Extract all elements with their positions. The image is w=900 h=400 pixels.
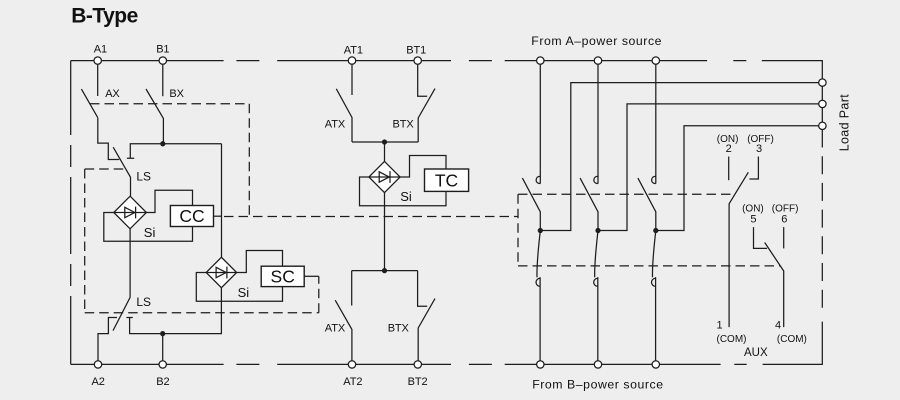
svg-text:BT1: BT1 xyxy=(406,45,426,57)
junction node pole1 xyxy=(538,228,543,233)
dashed pole interlock box top edge xyxy=(518,193,735,195)
switch ATX upper blade xyxy=(336,89,352,142)
terminal B-source pole3 xyxy=(652,361,659,368)
terminal AT2 xyxy=(348,361,355,368)
svg-text:Si: Si xyxy=(238,285,250,300)
switch pole2 upper blade xyxy=(580,178,598,230)
wire SC right stub xyxy=(304,275,319,277)
coil box SC xyxy=(261,266,304,286)
svg-text:CC: CC xyxy=(179,206,204,226)
terminal load 3 xyxy=(819,122,826,129)
terminal load 2 xyxy=(819,100,826,107)
dashed interlock box AX-BX right edge xyxy=(248,104,250,217)
terminal B2 xyxy=(159,361,166,368)
wire pole2 cross to load circle 2 xyxy=(598,104,819,231)
wire B-bus horizontal with LS B-contact tick xyxy=(127,144,222,158)
wire bridge1 bottom stem xyxy=(129,229,131,297)
junction node B-bus lower xyxy=(160,331,165,336)
wire pole1 bottom stem xyxy=(539,287,541,361)
switch LS upper blade xyxy=(113,147,130,196)
svg-text:AX: AX xyxy=(105,88,120,100)
pole1 top contact hook xyxy=(536,176,540,183)
wire lower B-bus horizontal with tick xyxy=(126,288,221,334)
wire A1 stem xyxy=(97,64,99,96)
wire CC right to B-bus xyxy=(214,215,222,217)
wire load-part right column dashes down to bottom rail xyxy=(821,130,823,311)
junction node pole3 xyxy=(653,228,658,233)
junction node TC funnel top xyxy=(382,139,387,144)
switch aux blade 5-6 and wire to terminal 4 xyxy=(765,243,784,328)
svg-text:Load Part: Load Part xyxy=(837,94,851,152)
pole2 top contact hook xyxy=(594,176,598,183)
junction node B-bus upper xyxy=(160,141,165,146)
wire A2 step to lower LS A-contact with tick xyxy=(98,318,117,361)
terminal AT1 xyxy=(348,57,355,64)
dashed LS interlock box right edge to SC xyxy=(318,276,320,312)
wire pole1 cross to load circle 1 xyxy=(540,83,818,231)
svg-text:SC: SC xyxy=(271,267,295,287)
wire aux contact 5 with tick xyxy=(754,227,768,248)
wire funnel bottom bar xyxy=(352,270,418,272)
wire bridge2 left loop to SC bottom xyxy=(196,273,282,302)
terminal A1 xyxy=(94,57,101,64)
wire lower BTX contact stem with tick xyxy=(418,271,428,307)
svg-text:(COM): (COM) xyxy=(717,334,747,345)
svg-text:Si: Si xyxy=(400,189,412,204)
svg-text:A2: A2 xyxy=(92,376,105,388)
wire bottom rail B-power (segmented) xyxy=(71,322,823,365)
terminal A2 xyxy=(94,361,101,368)
pole3 bottom contact hook xyxy=(651,277,655,287)
wire pole3 cross to load circle 3 xyxy=(656,126,819,231)
junction node TC funnel bottom xyxy=(382,268,387,273)
switch pole1 lower blade xyxy=(537,231,540,278)
wire B2 stem xyxy=(162,334,164,361)
switch pole3 lower blade xyxy=(652,231,655,278)
svg-text:BTX: BTX xyxy=(388,323,410,335)
dashed LS interlock box top edge xyxy=(85,168,125,170)
wire AT1 stem xyxy=(351,64,353,95)
svg-text:B2: B2 xyxy=(156,376,169,388)
switch ATX lower blade xyxy=(335,300,352,361)
rectifier bridge 2 (Si) xyxy=(206,257,237,288)
terminal B-source pole1 xyxy=(537,361,544,368)
svg-text:2: 2 xyxy=(726,143,732,155)
svg-text:3: 3 xyxy=(756,143,762,155)
wire bridge3 left loop to TC bottom xyxy=(360,177,447,206)
svg-text:(ON): (ON) xyxy=(717,134,739,145)
dashed interlock box AX-BX top edge xyxy=(90,103,249,105)
svg-text:ATX: ATX xyxy=(325,323,346,335)
junction node pole2 xyxy=(595,228,600,233)
switch BX blade xyxy=(146,89,163,144)
coil box CC xyxy=(170,206,213,227)
wire B-bus vertical to bridge2 xyxy=(221,144,223,258)
switch pole2 lower blade xyxy=(595,231,598,278)
switch BTX lower blade xyxy=(418,299,435,361)
svg-text:4: 4 xyxy=(775,319,781,331)
svg-text:AT2: AT2 xyxy=(343,376,362,388)
wire BT1 stem with tick xyxy=(418,64,428,96)
wire bridge2 right loop to SC top xyxy=(237,251,283,273)
terminal load 1 xyxy=(819,79,826,86)
dashed LS interlock box left edge xyxy=(84,169,86,313)
svg-text:BT2: BT2 xyxy=(408,376,428,388)
pole3 top contact hook xyxy=(652,176,656,183)
wire AX output step to LS A-contact with tick xyxy=(98,118,119,160)
coil box TC xyxy=(425,169,469,191)
terminal A-source pole2 xyxy=(594,57,601,64)
wire aux contact 6 xyxy=(783,227,785,248)
wire pole3 top stem xyxy=(655,64,657,183)
wire aux contact 2 xyxy=(728,157,730,181)
wire bridge3 bottom stem xyxy=(384,193,386,271)
svg-text:Si: Si xyxy=(144,225,156,240)
switch pole3 upper blade xyxy=(638,178,656,230)
svg-text:AUX: AUX xyxy=(744,347,768,359)
dashed interlock link line to right section xyxy=(224,216,518,218)
svg-text:From B–power source: From B–power source xyxy=(532,377,663,391)
wire pole2 bottom stem xyxy=(597,287,599,361)
svg-text:TC: TC xyxy=(435,171,458,191)
switch aux blade 2-3 and wire to terminal 1 xyxy=(729,172,748,327)
dashed pole interlock box bottom edge xyxy=(518,265,780,267)
wire funnel top bar xyxy=(352,141,418,143)
terminal A-source pole1 xyxy=(537,57,544,64)
svg-text:ATX: ATX xyxy=(325,118,346,130)
svg-text:AT1: AT1 xyxy=(344,45,363,57)
svg-text:BTX: BTX xyxy=(393,118,415,130)
switch AX blade xyxy=(81,89,97,118)
switch LS lower blade xyxy=(113,297,130,331)
svg-text:(ON): (ON) xyxy=(742,204,764,215)
svg-text:LS: LS xyxy=(136,170,151,184)
terminal BT1 xyxy=(414,57,421,64)
wire pole3 bottom stem xyxy=(655,287,657,361)
svg-text:1: 1 xyxy=(717,319,723,331)
svg-text:B-Type: B-Type xyxy=(71,4,138,27)
wire left border (segmented) xyxy=(70,61,72,365)
wire B1 stem xyxy=(162,64,164,96)
terminal B-source pole2 xyxy=(594,361,601,368)
svg-text:BX: BX xyxy=(169,88,184,100)
svg-text:LS: LS xyxy=(136,295,151,309)
svg-text:5: 5 xyxy=(750,213,756,225)
wire pole2 top stem xyxy=(597,64,599,183)
svg-text:6: 6 xyxy=(781,213,787,225)
terminal BT2 xyxy=(414,361,421,368)
wire top rail A-power (segmented) xyxy=(71,61,823,79)
svg-text:B1: B1 xyxy=(156,44,169,56)
svg-text:(OFF): (OFF) xyxy=(747,134,774,145)
wire pole1 top stem xyxy=(539,64,541,183)
rectifier bridge 1 (Si) xyxy=(114,196,147,229)
switch BTX upper blade xyxy=(418,89,435,142)
pole1 bottom contact hook xyxy=(536,277,540,287)
dashed pole interlock box left edge xyxy=(517,194,519,266)
svg-text:From A–power source: From A–power source xyxy=(531,34,662,48)
wire bridge1 right loop to CC top xyxy=(146,190,192,212)
terminal B1 xyxy=(159,57,166,64)
terminal A-source pole3 xyxy=(652,57,659,64)
pole2 bottom contact hook xyxy=(594,277,598,287)
svg-text:(OFF): (OFF) xyxy=(772,204,799,215)
dashed LS interlock box bottom edge xyxy=(85,312,319,314)
switch pole1 upper blade xyxy=(522,178,540,230)
svg-text:(COM): (COM) xyxy=(777,334,807,345)
svg-text:A1: A1 xyxy=(94,44,107,56)
wire load-part right column between circles xyxy=(821,86,823,122)
rectifier bridge 3 (Si) xyxy=(369,161,400,192)
wire lower ATX contact stem xyxy=(351,271,353,306)
wire bridge3 top stem xyxy=(384,142,386,161)
wire aux contact 3 with tick xyxy=(749,157,758,180)
wire bridge3 right loop to TC top xyxy=(400,156,446,178)
wire bridge1 left loop to CC bottom xyxy=(104,213,193,242)
